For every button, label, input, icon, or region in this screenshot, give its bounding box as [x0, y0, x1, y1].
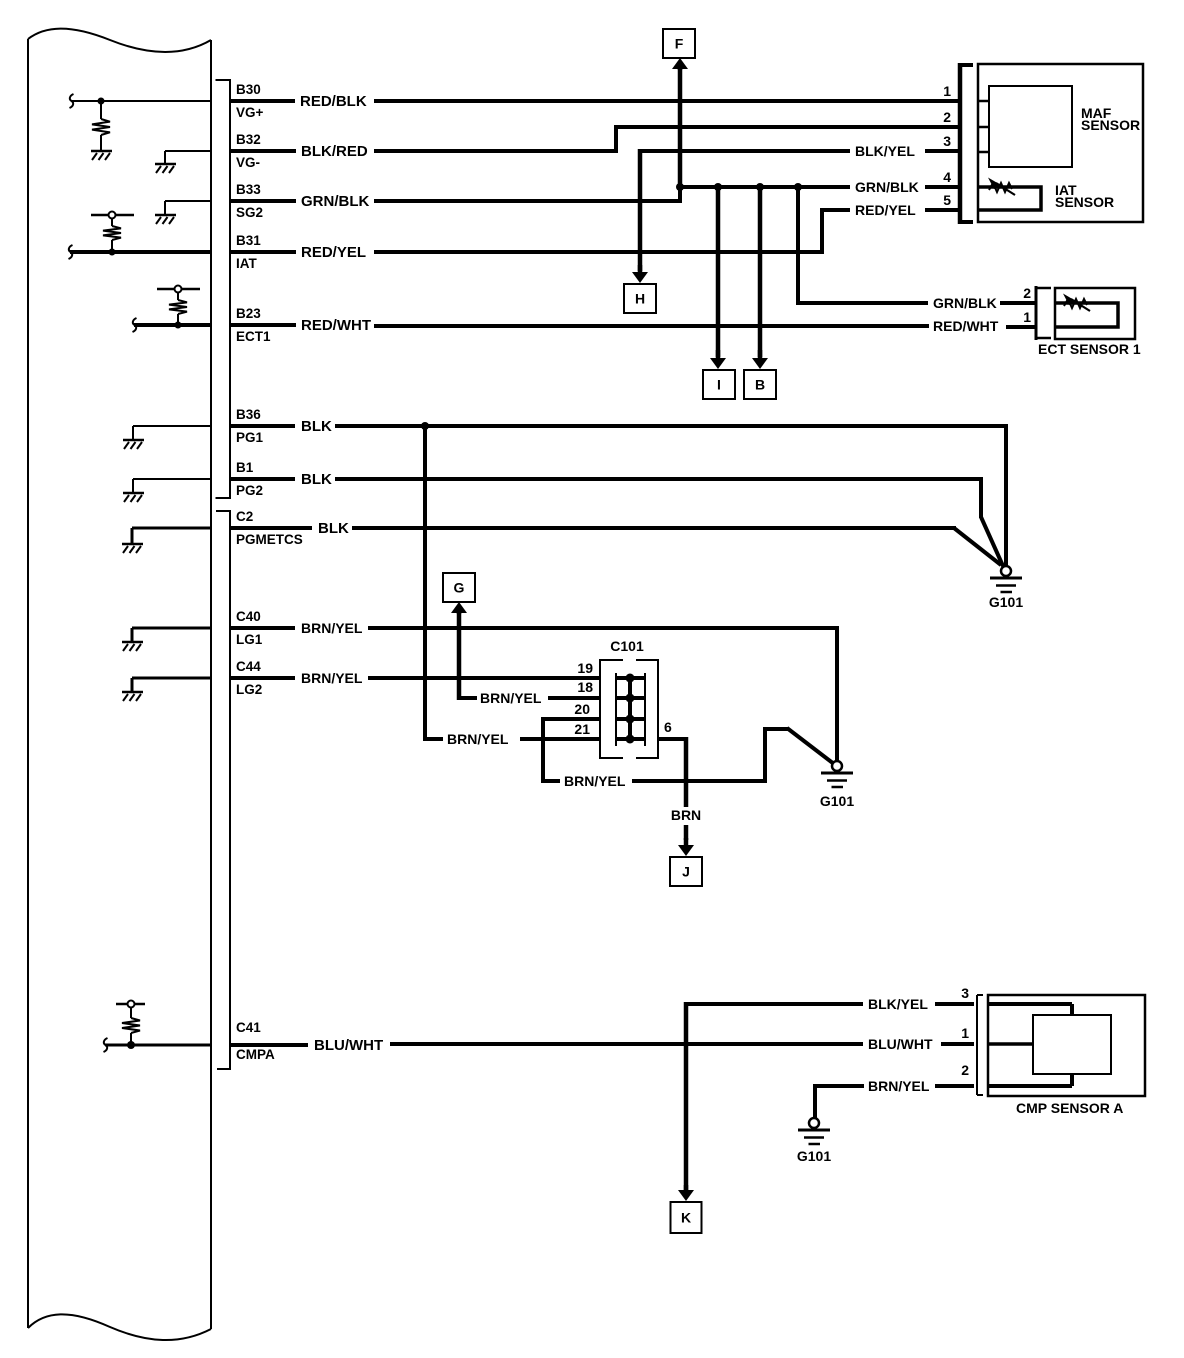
svg-text:G101: G101	[797, 1148, 831, 1164]
wire GRN/BLK bus to MAF pin 4	[678, 185, 850, 189]
svg-text:PG2: PG2	[236, 483, 263, 498]
ground chassis PGMETCS	[122, 543, 143, 546]
svg-text:B: B	[755, 377, 765, 393]
svg-text:C101: C101	[610, 638, 644, 654]
MAF sensor outer box	[978, 64, 1143, 222]
ground chassis VG-	[155, 163, 176, 166]
wire GRN/BLK branch to ECT sensor pin 2	[796, 187, 800, 303]
wire C44 BRN/YEL to C101 pin 19	[230, 676, 295, 680]
wire GRN/BLK riser to junction	[678, 185, 682, 203]
node dot C101 pin 19	[626, 674, 635, 683]
connector box J	[670, 857, 702, 886]
svg-text:3: 3	[961, 985, 969, 1001]
svg-text:H: H	[635, 291, 645, 307]
svg-text:2: 2	[961, 1062, 969, 1078]
wire B32 BLK/RED to MAF pin 2	[230, 149, 296, 153]
connector box B	[744, 370, 776, 399]
wire B36 internal PG1 stub to ground	[133, 425, 211, 427]
node junction dot at ECT branch	[794, 183, 802, 191]
wire B33 internal SG2 stub to ground	[165, 200, 211, 202]
svg-text:C40: C40	[236, 609, 261, 624]
CMP pin 1 internal wire	[988, 1042, 1033, 1046]
node junction dot B36/pin21 branch	[421, 422, 429, 430]
ECT sensor 1 element rectangle	[1055, 303, 1118, 327]
svg-text:G: G	[454, 580, 465, 596]
wire BLK/YEL to CMP sensor pin 3	[684, 1002, 863, 1006]
svg-text:GRN/BLK: GRN/BLK	[933, 295, 997, 311]
MAF pin 3 stub inside box	[978, 151, 989, 154]
svg-text:LG1: LG1	[236, 632, 263, 647]
wire BRN/YEL drop to G101 mid	[835, 626, 839, 761]
arrow up into G box	[457, 612, 462, 614]
svg-text:5: 5	[943, 192, 951, 208]
svg-text:RED/YEL: RED/YEL	[301, 244, 366, 261]
svg-text:1: 1	[1023, 309, 1031, 325]
wire B32 internal VG- stub to ground	[165, 150, 211, 152]
ground G101 top right	[1001, 566, 1011, 576]
wire BLK slant to G101	[954, 528, 1001, 565]
svg-text:BLK/RED: BLK/RED	[301, 143, 368, 160]
node junction dot B30 internal	[98, 98, 105, 105]
svg-text:6: 6	[664, 719, 672, 735]
svg-text:BRN/YEL: BRN/YEL	[301, 620, 363, 636]
svg-text:BLU/WHT: BLU/WHT	[314, 1037, 383, 1054]
svg-text:GRN/BLK: GRN/BLK	[301, 193, 369, 210]
svg-text:LG2: LG2	[236, 682, 262, 697]
svg-text:1: 1	[961, 1025, 969, 1041]
svg-text:SG2: SG2	[236, 205, 263, 220]
wire C44 internal LG2 stub to ground	[132, 677, 211, 680]
ECT sensor 1 connector bracket	[1035, 286, 1038, 340]
wire BLK elbow and slant to G101	[979, 479, 983, 518]
wire B31 RED/YEL from ECM	[230, 250, 296, 254]
ECM/PCM torn-sheet body outline	[28, 29, 211, 52]
wire BLK/YEL to MAF pin 3	[638, 149, 850, 153]
wire C101 inner row pin 20	[616, 717, 645, 721]
resistor internal pull-up on IAT	[111, 240, 113, 252]
ECM connector bracket (pins C2-C41)	[216, 511, 230, 1069]
ECT thermistor symbol	[1064, 299, 1087, 308]
ground chassis LG2	[122, 691, 143, 694]
connector box H	[624, 284, 656, 313]
wire BRN/YEL branch from B36 junction down to C101 pin 21	[423, 426, 427, 741]
arrow down into I box	[716, 350, 721, 359]
wire RED/YEL riser to MAF pin 5	[820, 208, 824, 254]
wire B30 internal VG+ stub	[70, 94, 74, 108]
node junction dot B31 internal	[109, 249, 116, 256]
svg-text:PG1: PG1	[236, 430, 264, 445]
svg-text:GRN/BLK: GRN/BLK	[855, 179, 919, 195]
ground chassis LG1	[122, 641, 143, 644]
wire C40 BRN/YEL to ground G101	[230, 626, 295, 630]
svg-text:BRN/YEL: BRN/YEL	[868, 1078, 930, 1094]
connector C101 right bracket	[636, 660, 658, 758]
svg-text:1: 1	[943, 83, 951, 99]
wire bus inside C101	[628, 676, 632, 741]
wire drop to connector K	[684, 1002, 689, 1191]
rail tap with circle above IAT resistor	[91, 214, 134, 217]
svg-text:C2: C2	[236, 509, 253, 524]
svg-text:B33: B33	[236, 182, 261, 197]
connector box I	[703, 370, 735, 399]
rail tap with circle above ECT1 resistor	[157, 288, 200, 291]
node junction dot B23 internal	[175, 322, 182, 329]
wire drop to connector B	[758, 187, 763, 357]
arrow down into J box	[684, 825, 689, 840]
svg-text:C41: C41	[236, 1020, 261, 1035]
svg-text:BLK/YEL: BLK/YEL	[868, 996, 928, 1012]
MAF sensor connector bracket	[958, 63, 963, 224]
CMP sensor outer box	[988, 995, 1145, 1096]
svg-text:J: J	[682, 864, 690, 880]
resistor internal pull-up on ECT1	[177, 314, 179, 325]
svg-text:F: F	[675, 36, 684, 52]
svg-text:BLU/WHT: BLU/WHT	[868, 1036, 933, 1052]
arrow down into B box	[758, 350, 763, 359]
CMP sensor connector bracket	[976, 995, 978, 1095]
svg-text:RED/BLK: RED/BLK	[300, 93, 367, 110]
svg-text:18: 18	[577, 679, 593, 695]
svg-text:C44: C44	[236, 659, 261, 674]
resistor internal pull-down on VG+	[100, 101, 102, 119]
CMP pin 3 internal wire	[988, 1002, 1072, 1006]
svg-text:B32: B32	[236, 132, 261, 147]
rail tap with circle above CMPA resistor	[116, 1003, 145, 1006]
svg-text:CMPA: CMPA	[236, 1047, 275, 1062]
resistor internal pull-up on CMPA	[130, 1033, 132, 1045]
wire B36 BLK to ground G101	[230, 424, 295, 428]
wire B30 RED/BLK to MAF pin 1	[230, 99, 295, 103]
ECM connector bracket (pins B30-B1)	[216, 80, 231, 498]
node dot C101 pin 18	[626, 694, 635, 703]
svg-text:BRN/YEL: BRN/YEL	[480, 690, 542, 706]
svg-text:B30: B30	[236, 82, 261, 97]
svg-text:RED/WHT: RED/WHT	[301, 317, 371, 334]
svg-text:B31: B31	[236, 233, 261, 248]
connector C101 inner contact rails	[615, 673, 617, 746]
MAF pin 2 stub inside box	[978, 126, 989, 129]
svg-text:ECT SENSOR 1: ECT SENSOR 1	[1038, 341, 1141, 357]
node dot C101 pin 20	[626, 715, 635, 724]
svg-text:G101: G101	[989, 594, 1023, 610]
wire BRN/YEL to CMP sensor pin 2	[813, 1084, 864, 1088]
connector C101 left bracket	[600, 660, 623, 758]
wire C101 inner row pin 21	[616, 737, 645, 741]
svg-text:B1: B1	[236, 460, 254, 475]
wire B33 GRN/BLK from ECM	[230, 199, 296, 203]
IAT thermistor symbol	[989, 183, 1012, 192]
CMP pin 2 internal wire	[988, 1084, 1072, 1088]
node junction dot at I drop	[714, 183, 722, 191]
svg-text:IAT: IAT	[236, 256, 257, 271]
pin 20 stub wire	[543, 717, 600, 721]
wire C2 BLK to ground G101	[230, 526, 312, 530]
wire B23 internal ECT1 stub	[133, 318, 137, 332]
svg-text:19: 19	[577, 660, 593, 676]
svg-text:BRN/YEL: BRN/YEL	[447, 731, 509, 747]
svg-text:BLK: BLK	[301, 418, 332, 435]
wire drop to connector H	[638, 149, 643, 271]
svg-text:SENSOR: SENSOR	[1055, 194, 1114, 210]
svg-text:G101: G101	[820, 793, 854, 809]
svg-text:B23: B23	[236, 306, 261, 321]
wire C41 internal CMPA stub	[104, 1038, 108, 1052]
wire riser to connector G from BRN/YEL	[457, 612, 462, 700]
svg-text:2: 2	[943, 109, 951, 125]
svg-text:2: 2	[1023, 285, 1031, 301]
wire BLK drop to G101	[1004, 424, 1008, 566]
svg-text:B36: B36	[236, 407, 261, 422]
svg-text:3: 3	[943, 133, 951, 149]
CMP sensing element inner box	[1033, 1015, 1111, 1074]
svg-text:PGMETCS: PGMETCS	[236, 532, 303, 547]
wire riser to connector F	[678, 68, 683, 187]
svg-text:BLK: BLK	[301, 471, 332, 488]
connector box K	[671, 1202, 702, 1233]
svg-text:BLK: BLK	[318, 520, 349, 537]
ground chassis SG2	[155, 214, 176, 217]
arrow up into F box	[678, 68, 683, 70]
ground chassis PG2	[123, 492, 144, 495]
svg-text:BRN/YEL: BRN/YEL	[564, 773, 626, 789]
MAF sensing element inner box	[989, 86, 1072, 167]
MAF pin 1 stub inside box	[978, 100, 989, 103]
wire BRN/YEL from pin 20 down and right to ground G101	[541, 717, 545, 783]
svg-text:CMP SENSOR A: CMP SENSOR A	[1016, 1100, 1123, 1116]
wire B1 internal PG2 stub to ground	[133, 478, 211, 480]
svg-text:I: I	[717, 377, 721, 393]
ground G101 bottom	[809, 1118, 819, 1128]
svg-text:4: 4	[943, 169, 951, 185]
ground chassis PG1	[123, 439, 144, 442]
svg-text:BRN/YEL: BRN/YEL	[301, 670, 363, 686]
wire C101 inner row pin 18	[616, 696, 645, 700]
svg-text:BRN: BRN	[671, 807, 701, 823]
ECT sensor 1 outer box	[1055, 288, 1135, 339]
IAT sensor element rectangle	[978, 187, 1041, 210]
ground chassis internal below VG+ resistor	[91, 150, 112, 153]
wire slant to G101 mid	[787, 728, 834, 764]
wire drop to connector I	[716, 187, 721, 357]
wire C41 BLU/WHT to CMP sensor pin 1	[230, 1043, 308, 1047]
svg-text:SENSOR: SENSOR	[1081, 117, 1140, 133]
node dot C101 pin 21	[626, 735, 635, 744]
wire C2 internal PGMETCS stub to ground	[132, 527, 211, 530]
svg-text:K: K	[681, 1210, 691, 1226]
svg-text:ECT1: ECT1	[236, 329, 271, 344]
svg-text:21: 21	[574, 721, 590, 737]
arrow down into H box	[638, 265, 643, 273]
connector box G	[443, 573, 475, 602]
wire C40 internal LG1 stub to ground	[132, 627, 211, 630]
connector box F	[663, 29, 695, 58]
wire B23 RED/WHT to ECT sensor pin 1	[230, 323, 296, 327]
svg-text:RED/YEL: RED/YEL	[855, 202, 916, 218]
node junction dot at F riser	[676, 183, 684, 191]
wire C101 pin 6 down to connector J	[658, 737, 688, 741]
arrow down into K box	[684, 1185, 689, 1191]
node junction dot C41 internal	[127, 1041, 135, 1049]
ground G101 middle	[832, 761, 842, 771]
wire B31 internal IAT stub	[69, 245, 73, 259]
wire B1 BLK to ground G101	[230, 477, 295, 481]
svg-text:VG+: VG+	[236, 105, 264, 120]
svg-text:RED/WHT: RED/WHT	[933, 318, 999, 334]
node junction dot at B drop	[756, 183, 764, 191]
wire C101 inner row pin 19	[616, 676, 645, 680]
svg-text:20: 20	[574, 701, 590, 717]
wire drop to ground G101 bottom	[813, 1084, 817, 1118]
svg-text:BLK/YEL: BLK/YEL	[855, 143, 915, 159]
svg-text:VG-: VG-	[236, 155, 260, 170]
